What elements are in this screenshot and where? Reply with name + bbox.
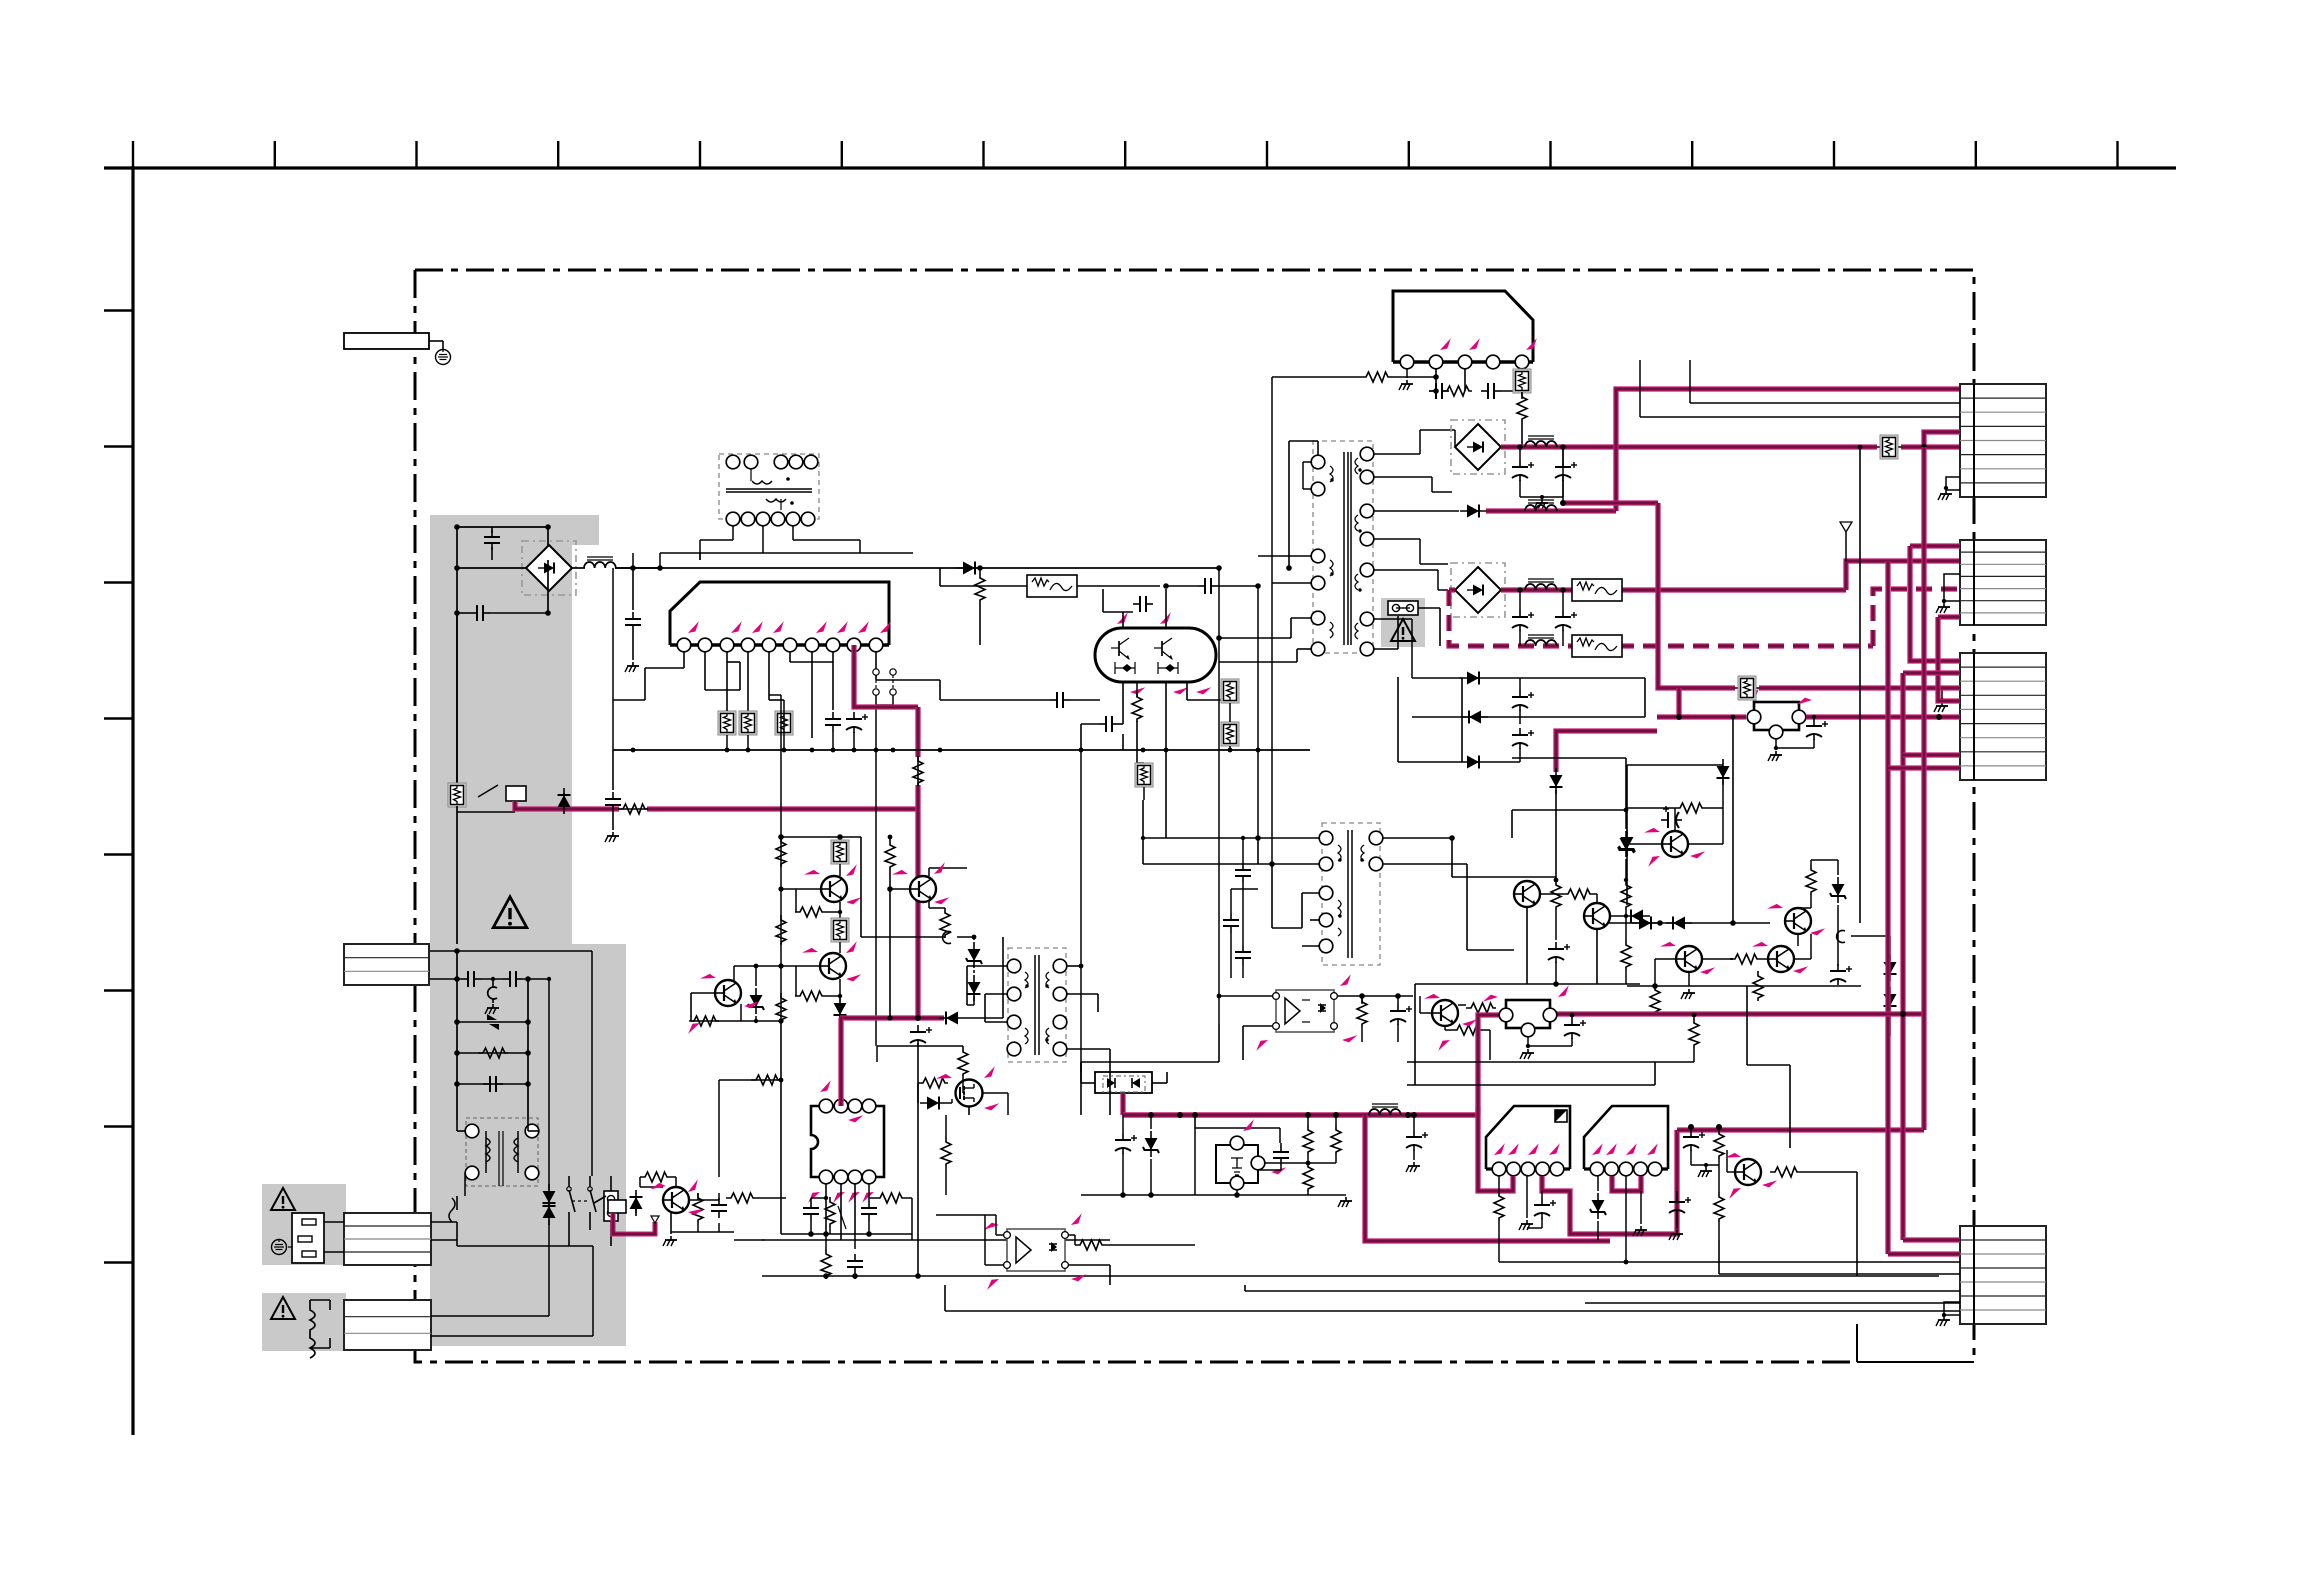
- pickup loop: [1837, 931, 1845, 943]
- T903 pin: [1360, 612, 1374, 626]
- wire: [613, 699, 645, 701]
- wire: [1946, 489, 1960, 491]
- wire: [1626, 765, 1628, 905]
- wire: [1693, 1048, 1695, 1062]
- wire: [839, 979, 841, 1002]
- ground: [1519, 1220, 1533, 1230]
- junction: [1554, 878, 1559, 883]
- probe arrow: [1196, 684, 1211, 696]
- T904 pin: [1319, 831, 1333, 845]
- resistor R962: [875, 1193, 905, 1203]
- resistor R977: [776, 993, 786, 1023]
- IC904 outline: [1486, 1106, 1570, 1169]
- shaded primary area: [430, 515, 626, 1346]
- wire: [1397, 996, 1399, 1004]
- probe arrow: [685, 1179, 701, 1192]
- probe arrow: [818, 1080, 833, 1092]
- bidirectional diode D903: [487, 1014, 497, 1020]
- wire: [854, 1184, 856, 1234]
- wire: [1119, 651, 1129, 659]
- probe arrow: [1590, 1143, 1605, 1155]
- capacitor C905: [488, 987, 497, 999]
- wire: [1186, 682, 1188, 700]
- wire: [889, 870, 891, 1018]
- wire: [892, 675, 894, 689]
- connector CN906: [1960, 1226, 2046, 1324]
- wire: [839, 942, 841, 953]
- junction: [1256, 748, 1261, 753]
- IC901 pin 3: [720, 638, 734, 652]
- wire: [929, 867, 967, 869]
- wire: [1165, 589, 1167, 628]
- wire: [1080, 750, 1082, 1072]
- wire: [1571, 1038, 1573, 1046]
- ruler tick: [104, 1125, 133, 1127]
- probe arrow: [744, 998, 759, 1010]
- capacitor C952: [1235, 945, 1251, 965]
- probe arrow: [1725, 1150, 1741, 1165]
- probe arrow: [1797, 696, 1812, 708]
- IC904 pin 4: [1536, 1162, 1550, 1176]
- wire: [939, 680, 941, 700]
- wire: [825, 1184, 827, 1234]
- wire: [670, 1213, 672, 1234]
- junction: [1079, 964, 1084, 969]
- wire: [568, 1176, 570, 1187]
- junction: [1358, 468, 1361, 471]
- wire: [726, 735, 728, 750]
- resistor R903: [478, 1048, 508, 1058]
- wire: [854, 1276, 856, 1279]
- wire: [1639, 360, 1641, 417]
- wire: [1097, 994, 1099, 1012]
- wire: [946, 1102, 952, 1104]
- wire: [457, 811, 515, 813]
- resistor R967: [1331, 1125, 1341, 1155]
- T903 pin: [1360, 470, 1374, 484]
- junction: [545, 610, 551, 616]
- junction: [1234, 1192, 1240, 1198]
- wire: [1143, 837, 1258, 839]
- wire: [1521, 369, 1523, 372]
- inductor L924: [1525, 635, 1557, 646]
- wire: [1627, 843, 1662, 845]
- ruler tick: [1266, 141, 1268, 168]
- wire: [1162, 651, 1172, 659]
- junction: [1921, 444, 1927, 450]
- electrolytic C912: [846, 712, 868, 733]
- wire highlight: [840, 1015, 918, 1020]
- wire: [1519, 710, 1521, 724]
- ruler tick: [104, 309, 133, 311]
- junction: [938, 748, 943, 753]
- pin: [771, 512, 785, 526]
- wire: [780, 499, 782, 510]
- ruler tick: [104, 445, 133, 447]
- wire: [825, 995, 840, 997]
- wire: [780, 1021, 782, 1234]
- probe arrow: [1173, 684, 1188, 696]
- wire highlight top rail: [1677, 1127, 1924, 1132]
- IC902 pin 4: [1486, 355, 1500, 369]
- junction: [1333, 1112, 1339, 1118]
- core: [726, 491, 812, 493]
- probe arrow: [1492, 1143, 1507, 1155]
- wire: [1432, 491, 1452, 493]
- wire: [1655, 958, 1676, 960]
- wire highlight: [1938, 617, 1960, 701]
- fusible resistor R901: [448, 783, 466, 807]
- wire: [1109, 1049, 1111, 1115]
- wire: [1722, 780, 1724, 808]
- wire: [1449, 587, 1455, 592]
- junction: [1255, 835, 1261, 841]
- wire: [1562, 590, 1564, 610]
- wire: [697, 1193, 699, 1200]
- wire: [1412, 716, 1645, 718]
- wire: [967, 1004, 974, 1006]
- wire: [1154, 647, 1162, 649]
- ruler tick: [1549, 141, 1551, 168]
- electrolytic C941: [1512, 460, 1534, 481]
- pin: [774, 455, 788, 469]
- wire: [1464, 369, 1466, 391]
- wire: [1851, 935, 1890, 937]
- wire: [795, 966, 797, 996]
- IC903 bottom pin: [862, 1170, 876, 1184]
- capacitor C951: [1223, 913, 1239, 933]
- wire: [632, 632, 634, 660]
- junction: [725, 748, 730, 753]
- wire: [1271, 864, 1273, 928]
- IC901 pin 10: [869, 638, 883, 652]
- wire: [917, 1083, 919, 1103]
- chassis ground: [436, 350, 451, 365]
- junction: [1560, 500, 1566, 506]
- wire highlight vertical C: [1921, 447, 1926, 1130]
- relay RY902 coil: [608, 1200, 626, 1213]
- wire: [825, 1276, 827, 1279]
- wire: [726, 662, 728, 711]
- wire: [1102, 589, 1104, 612]
- wire: [523, 978, 549, 980]
- wire: [789, 652, 791, 662]
- wire: [940, 585, 1027, 587]
- pin: [744, 455, 758, 469]
- wire: [755, 966, 757, 986]
- wire: [1486, 761, 1520, 763]
- wire: [1413, 1115, 1415, 1130]
- wire: [793, 539, 860, 541]
- probe arrow: [1424, 991, 1440, 1006]
- IC902 pin 2: [1429, 355, 1443, 369]
- shaded area: fuse near transformer: [1381, 598, 1425, 647]
- junction: [1944, 486, 1948, 490]
- wire: [1302, 462, 1304, 489]
- wire: [1942, 688, 1960, 700]
- zener D944: [1590, 1193, 1606, 1219]
- wire: [1310, 919, 1319, 921]
- junction: [1411, 1112, 1417, 1118]
- wire: [1414, 984, 1416, 1085]
- degauss coil L902: [310, 1300, 315, 1358]
- U901 pin gnd: [1769, 725, 1783, 739]
- junction: [1731, 715, 1736, 720]
- junction: [454, 976, 460, 982]
- junction: [1940, 698, 1944, 702]
- wire: [1219, 637, 1291, 639]
- capacitor C911: [825, 712, 841, 732]
- wire: [612, 812, 614, 830]
- electrolytic C972: [1669, 1195, 1691, 1216]
- ground: [625, 662, 639, 672]
- wire: [825, 1234, 827, 1249]
- wire: [973, 996, 975, 1005]
- wire: [1718, 1222, 1720, 1240]
- wire: [1420, 429, 1455, 431]
- junction: [778, 834, 784, 840]
- relay contact: [594, 1196, 606, 1203]
- wire: [1454, 430, 1456, 447]
- wire: [590, 1245, 593, 1247]
- wire: [1291, 617, 1311, 619]
- wire: [615, 567, 660, 569]
- IC901 pin 7: [805, 638, 819, 652]
- capacitor C950: [1235, 863, 1251, 883]
- wire highlight branch: [1365, 1115, 1610, 1241]
- ground: [1338, 1197, 1352, 1207]
- junction: [1560, 587, 1566, 593]
- warning mark: [271, 1297, 295, 1319]
- wire highlight: [1924, 432, 1960, 447]
- probe arrow: [1660, 939, 1676, 954]
- junction: [1080, 1275, 1082, 1277]
- IC904 pin 5: [1550, 1162, 1564, 1176]
- IC905 pin 4: [1634, 1162, 1648, 1176]
- wire: [1307, 1115, 1309, 1125]
- wire highlight: [1486, 508, 1616, 513]
- wire: [492, 998, 494, 1003]
- probe arrow: [986, 1279, 1001, 1290]
- wire: [1640, 1191, 1642, 1224]
- wire: [1512, 809, 1626, 811]
- wire: [563, 793, 565, 809]
- wire: [1230, 933, 1232, 978]
- wire: [1813, 717, 1815, 719]
- pin: [726, 455, 740, 469]
- wire: [1279, 1128, 1281, 1143]
- wire: [1596, 894, 1598, 903]
- T903 pin: [1360, 532, 1374, 546]
- wire: [1166, 585, 1198, 587]
- wire: [1119, 638, 1129, 645]
- wire: [1859, 447, 1861, 923]
- junction: [547, 977, 551, 981]
- wire: [690, 993, 692, 1021]
- wire: [1302, 945, 1319, 947]
- resistor R931: [1361, 372, 1391, 382]
- wire B+ highlight: [515, 801, 619, 809]
- wire: [1437, 570, 1439, 590]
- wire: [1290, 618, 1292, 638]
- resistor R961: [825, 1197, 835, 1227]
- junction: [1624, 878, 1628, 882]
- junction: [917, 1045, 919, 1047]
- core: [1038, 955, 1040, 1055]
- resistor R944: [1650, 985, 1660, 1015]
- resistor R991: [751, 1075, 781, 1085]
- wire: [1519, 630, 1521, 646]
- wire: [1413, 1150, 1415, 1160]
- T905 pin: [1053, 987, 1067, 1001]
- wire: [1361, 996, 1363, 1004]
- wire: [1775, 739, 1777, 748]
- junction: [1942, 599, 1946, 603]
- connector CN907: [344, 944, 429, 985]
- capacitor C961: [803, 1201, 819, 1221]
- wire: [750, 469, 752, 481]
- wire: [1705, 807, 1723, 809]
- wire: [1303, 461, 1311, 463]
- wire: [1467, 949, 1514, 951]
- junction: [1704, 1163, 1708, 1167]
- IC904 pin 2: [1507, 1162, 1521, 1176]
- wire: [1166, 1072, 1168, 1083]
- pin: [465, 1124, 479, 1138]
- wire highlight mid rail: [1549, 1011, 1926, 1016]
- probe arrow: [1793, 963, 1808, 975]
- inductor L925: [1369, 1104, 1401, 1115]
- junction: [1540, 495, 1544, 499]
- wire: [1562, 630, 1564, 646]
- wire: [1143, 863, 1272, 865]
- switch arm: [569, 1190, 575, 1212]
- resistor R981: [795, 991, 825, 1001]
- junction: [808, 1231, 814, 1237]
- junction: [1433, 388, 1439, 394]
- resistor R949: [1466, 1003, 1496, 1013]
- junction: [1657, 920, 1663, 926]
- capacitor C915: [605, 792, 621, 812]
- wire: [995, 1215, 997, 1235]
- wire: [1690, 1127, 1692, 1130]
- wire: [1540, 893, 1563, 895]
- fusible resistor R978: [831, 840, 849, 864]
- wire: [780, 695, 782, 1021]
- wire: [1105, 1244, 1195, 1246]
- wire: [1521, 422, 1523, 447]
- wire: [719, 1079, 781, 1081]
- wire: [619, 808, 647, 810]
- junction: [831, 748, 836, 753]
- wire: [548, 1246, 550, 1316]
- wire: [1627, 985, 1838, 987]
- wire: [1397, 616, 1399, 649]
- probe arrow: [1342, 1032, 1357, 1044]
- IC904 pin bar: [1486, 1167, 1570, 1170]
- wire: [1973, 540, 1975, 625]
- capacitor C921: [1133, 596, 1153, 612]
- ground: [1934, 702, 1948, 712]
- IC903 top pin: [834, 1099, 848, 1113]
- wire: [756, 1197, 786, 1199]
- capacitor C903: [461, 971, 481, 987]
- wire: [1798, 907, 1811, 909]
- wire: [868, 1221, 870, 1234]
- fusible resistor R980: [831, 918, 849, 942]
- wire: [1067, 1048, 1110, 1050]
- ruler tick: [2116, 141, 2118, 168]
- wire highlight vertical A: [1885, 561, 1890, 1254]
- ruler tick: [104, 581, 133, 583]
- junction: [1526, 1044, 1530, 1048]
- wire: [592, 1246, 594, 1336]
- wire: [1109, 1265, 1111, 1285]
- capacitor C913: [1050, 692, 1070, 708]
- wire: [1374, 648, 1398, 650]
- wire: [1177, 662, 1179, 674]
- probe arrow: [1524, 338, 1539, 350]
- wire: [755, 1016, 757, 1021]
- switch arm: [590, 1190, 596, 1212]
- junction: [915, 1273, 921, 1279]
- wire: [675, 1177, 677, 1187]
- wire highlight: [1903, 752, 1960, 757]
- wire: [1719, 1273, 1960, 1275]
- probe arrow: [1556, 985, 1571, 997]
- ground: [1520, 1049, 1534, 1059]
- resistor R921: [1132, 692, 1142, 722]
- resistor R986: [1551, 880, 1561, 910]
- wire: [1458, 1004, 1466, 1006]
- junction: [454, 565, 460, 571]
- wire: [1302, 999, 1310, 1001]
- junction: [1900, 1011, 1906, 1017]
- wire: [1435, 369, 1437, 391]
- diode D925: [1460, 756, 1486, 769]
- connector CN901: [344, 1213, 431, 1265]
- diode D934: [1666, 917, 1692, 930]
- wire: [429, 950, 592, 952]
- wire: [1219, 995, 1273, 997]
- wire: [1081, 723, 1099, 725]
- wire: [1122, 1115, 1124, 1133]
- label box (part no.): [344, 333, 429, 349]
- junction: [1358, 529, 1361, 532]
- wire: [1080, 724, 1082, 750]
- junction: [1216, 635, 1222, 641]
- wire highlight: [1888, 765, 1960, 770]
- wire: [917, 1043, 919, 1276]
- junction: [1345, 1194, 1347, 1196]
- wire: [1519, 748, 1521, 762]
- wire: [1477, 1106, 1479, 1115]
- junction: [1716, 1124, 1722, 1130]
- wire: [1067, 993, 1098, 995]
- junction: [1045, 984, 1048, 987]
- wire: [1597, 1221, 1599, 1240]
- core: [1347, 452, 1349, 645]
- wire: [726, 652, 728, 662]
- resistor R973: [1714, 1192, 1724, 1222]
- ruler tick: [104, 717, 133, 719]
- regulator U903: [1506, 1000, 1550, 1028]
- junction: [1163, 583, 1169, 589]
- wire: [456, 951, 458, 1120]
- wire: [1115, 667, 1135, 669]
- pin: [741, 512, 755, 526]
- wire: [457, 978, 461, 980]
